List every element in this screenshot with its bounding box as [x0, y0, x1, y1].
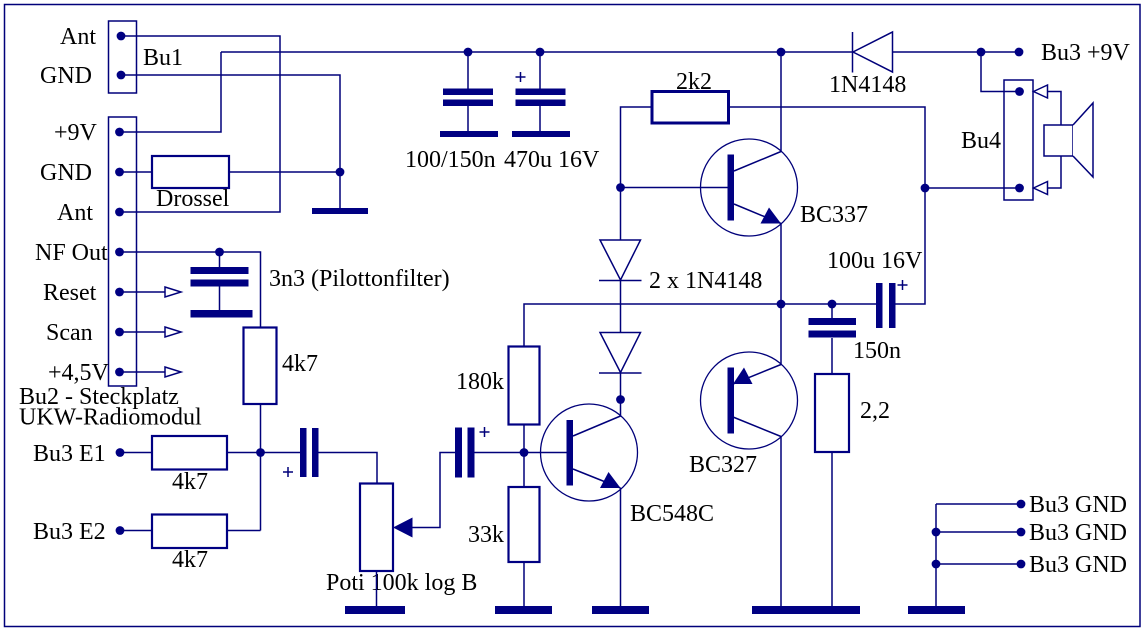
- pin Bu2 Ant: [57, 200, 124, 226]
- pin Bu1 GND: [40, 63, 125, 89]
- resistor 180k: [456, 347, 540, 425]
- wire +4,5V arrow: [123, 367, 181, 377]
- ground (BC548 emitter): [592, 606, 649, 614]
- wire speaker loop: [1048, 92, 1062, 189]
- potentiometer Poti 100k log B: [326, 484, 477, 597]
- svg-text:Bu3 E1: Bu3 E1: [33, 441, 106, 467]
- node base BC548: [520, 448, 529, 457]
- pin Bu3 GND 1: [1017, 492, 1127, 518]
- wire Scan arrow: [123, 327, 181, 337]
- wire BC327 emitter up: [780, 304, 782, 365]
- svg-text:Ant: Ant: [57, 200, 93, 226]
- pin Bu1 Ant: [60, 24, 125, 50]
- ground (3n3): [191, 310, 253, 318]
- node rail C2: [536, 48, 545, 57]
- connector Bu1: [109, 21, 184, 93]
- node rail BC337: [777, 48, 786, 57]
- ground (470u): [512, 131, 570, 137]
- capacitor electrolytic (E1 coupling): [283, 428, 319, 477]
- diode 1N4148 (upper of pair): [599, 188, 642, 281]
- svg-text:NF Out: NF Out: [35, 240, 108, 266]
- wire Bu2.GND to Drossel: [123, 171, 152, 173]
- pin Bu2 +4,5V: [48, 360, 124, 386]
- wire cap to base node: [475, 452, 567, 454]
- svg-text:Bu3 +9V: Bu3 +9V: [1041, 40, 1131, 66]
- svg-text:+9V: +9V: [54, 120, 98, 146]
- wire 2k2 right to output: [729, 107, 926, 304]
- wire 180k top to feedback rail: [524, 304, 876, 347]
- svg-text:4k7: 4k7: [172, 547, 208, 573]
- svg-text:470u 16V: 470u 16V: [504, 147, 600, 173]
- wire +9V riser: [120, 52, 221, 132]
- wire BC337 base: [621, 187, 728, 189]
- node BC548 collector: [616, 395, 625, 404]
- svg-text:+4,5V: +4,5V: [48, 360, 110, 386]
- svg-text:4k7: 4k7: [282, 351, 318, 377]
- capacitor electrolytic (base coupling): [455, 427, 490, 478]
- connector Bu4: [961, 80, 1033, 200]
- svg-text:Poti 100k log B: Poti 100k log B: [326, 570, 477, 596]
- wire NF Out to 4k7: [120, 252, 261, 328]
- ground (Bu3 GND): [908, 606, 965, 614]
- node E1 junction: [256, 448, 265, 457]
- wire Reset arrow: [123, 287, 181, 297]
- resistor 2,2: [815, 374, 890, 452]
- wire Drossel to junction: [229, 171, 340, 173]
- capacitor 3n3 Pilottonfilter: [191, 252, 450, 310]
- transistor BC337: [701, 139, 869, 236]
- inductor Drossel: [152, 156, 230, 212]
- svg-text:Reset: Reset: [43, 280, 97, 306]
- node output to Bu4: [921, 184, 930, 193]
- speaker: [1044, 103, 1093, 177]
- svg-text:3n3 (Pilottonfilter): 3n3 (Pilottonfilter): [269, 266, 450, 292]
- wire to Bu4 pin2: [925, 187, 1020, 189]
- svg-text:Scan: Scan: [46, 320, 93, 346]
- resistor 4k7 (filter): [244, 328, 319, 405]
- transistor BC327: [689, 352, 798, 478]
- wire BC548 emitter to ground: [620, 488, 622, 606]
- svg-text:100/150n: 100/150n: [405, 147, 496, 173]
- node Bu3 GND 2: [932, 528, 941, 537]
- pin Bu4 top: [1015, 87, 1024, 96]
- wire poti to ground: [376, 571, 378, 606]
- wire wiper to cap: [413, 453, 456, 528]
- wire +9V rail left: [221, 51, 853, 53]
- svg-text:Bu4: Bu4: [961, 128, 1001, 154]
- pin Bu3 E1: [33, 441, 124, 467]
- wire Bu1.GND down to ground: [123, 75, 340, 208]
- svg-text:2 x 1N4148: 2 x 1N4148: [649, 268, 762, 294]
- node rail C1: [464, 48, 473, 57]
- svg-text:Bu3 E2: Bu3 E2: [33, 519, 106, 545]
- resistor 4k7 (E1): [120, 436, 300, 495]
- node Drossel-GND junction: [336, 168, 345, 177]
- capacitor 470u 16V: [504, 52, 600, 173]
- ground (33k): [495, 606, 552, 614]
- wire 2k2 left leg: [621, 107, 653, 188]
- svg-text:Bu3 GND: Bu3 GND: [1029, 492, 1127, 518]
- connector Bu2: [19, 117, 202, 431]
- resistor 33k: [468, 487, 540, 562]
- capacitor 100u 16V: [827, 248, 923, 328]
- arrow Bu4 bottom: [1034, 182, 1048, 195]
- diode 1N4148 (lower of pair): [599, 268, 762, 400]
- svg-text:1N4148: 1N4148: [829, 72, 906, 98]
- node NF Out junction: [215, 248, 224, 257]
- node Bu3 GND 3: [932, 560, 941, 569]
- svg-text:Bu3 GND: Bu3 GND: [1029, 520, 1127, 546]
- svg-text:180k: 180k: [456, 369, 504, 395]
- arrow Bu4 top: [1034, 85, 1048, 98]
- svg-text:4k7: 4k7: [172, 469, 208, 495]
- pin Bu3 E2: [33, 519, 124, 545]
- wire Bu3 GND harness: [936, 504, 1021, 607]
- pin Bu2 NF Out: [35, 240, 124, 266]
- svg-text:GND: GND: [40, 160, 92, 186]
- node BC337 base: [616, 183, 625, 192]
- wire 180k to base node: [523, 425, 525, 488]
- node Bu3 +9V junction: [977, 48, 986, 57]
- wire middle column: [260, 404, 262, 531]
- transistor BC548C: [541, 404, 715, 527]
- pin Bu3 GND 3: [1017, 552, 1127, 578]
- diode 1N4148 (supply): [829, 32, 906, 98]
- svg-text:Ant: Ant: [60, 24, 96, 50]
- wire cap to poti: [319, 453, 378, 484]
- svg-text:Bu3 GND: Bu3 GND: [1029, 552, 1127, 578]
- svg-text:GND: GND: [40, 63, 92, 89]
- svg-text:BC337: BC337: [800, 202, 868, 228]
- ground (poti): [345, 606, 405, 614]
- resistor 2k2: [652, 69, 729, 123]
- svg-text:2,2: 2,2: [860, 398, 890, 424]
- svg-text:Bu1: Bu1: [143, 45, 183, 71]
- node emitter junction: [777, 300, 786, 309]
- capacitor 100/150n: [405, 52, 496, 173]
- svg-text:33k: 33k: [468, 522, 504, 548]
- svg-text:150n: 150n: [853, 338, 901, 364]
- pin Bu2 Scan: [46, 320, 124, 346]
- wire BC548 collector: [620, 400, 622, 417]
- wire 2,2 to ground: [831, 452, 833, 606]
- wire 33k to ground: [523, 562, 525, 606]
- svg-text:BC327: BC327: [689, 452, 757, 478]
- pin Bu3 +9V: [1015, 40, 1131, 66]
- ground (100/150n): [440, 131, 498, 137]
- pin Bu2 GND: [40, 160, 124, 186]
- svg-text:BC548C: BC548C: [630, 501, 714, 527]
- wire +9V rail right: [893, 51, 1020, 53]
- pin Bu3 GND 2: [1017, 520, 1127, 546]
- svg-text:Drossel: Drossel: [156, 186, 230, 212]
- capacitor 150n: [809, 304, 902, 374]
- svg-text:100u 16V: 100u 16V: [827, 248, 923, 274]
- pin Bu2 +9V: [54, 120, 124, 146]
- wire Bu1.Ant to Bu2.Ant: [123, 36, 280, 212]
- svg-text:UKW-Radiomodul: UKW-Radiomodul: [19, 405, 202, 431]
- wire BC327 collector to ground: [780, 437, 782, 607]
- wire rail to Bu4 pin1: [981, 52, 1020, 92]
- pin Bu2 Reset: [43, 280, 124, 306]
- wire BC337 collector to rail: [780, 52, 782, 152]
- svg-text:2k2: 2k2: [676, 69, 712, 95]
- ground (BC327 / 2,2): [752, 606, 860, 614]
- resistor 4k7 (E2): [120, 515, 261, 574]
- pin Bu4 bottom: [1015, 184, 1024, 193]
- node 150n junction: [828, 300, 837, 309]
- wire BC337 emitter down: [780, 224, 782, 305]
- ground (Bu1 GND): [312, 208, 368, 214]
